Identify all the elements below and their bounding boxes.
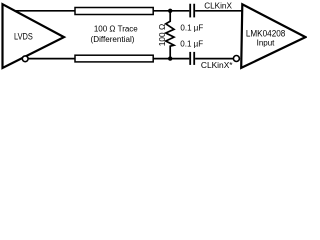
- svg-text:100 Ω Trace: 100 Ω Trace: [94, 25, 138, 34]
- wire bottom rail from trace to capacitor: [153, 58, 189, 60]
- wire bottom rail from capacitor to receiver bubble: [195, 58, 234, 60]
- svg-text:100 Ω: 100 Ω: [157, 24, 167, 46]
- node junction top: [168, 9, 172, 13]
- inversion bubble on receiver bottom input: [233, 56, 239, 62]
- node junction bottom: [168, 56, 172, 60]
- op-amp U2 LMK04208 input triangle: [241, 4, 305, 68]
- transmission line trace bottom (100 ohm): [75, 55, 153, 62]
- resistor R1 100 ohm vertical zigzag: [166, 11, 174, 59]
- op-amp U1 LVDS driver triangle: [3, 4, 65, 68]
- wire top rail from driver to trace: [15, 10, 76, 12]
- svg-text:LVDS: LVDS: [14, 32, 33, 42]
- svg-text:0.1 µF: 0.1 µF: [180, 40, 203, 49]
- wire bottom rail from driver bubble to trace: [28, 58, 75, 60]
- svg-text:Input: Input: [257, 38, 275, 48]
- svg-text:CLKinX*: CLKinX*: [201, 60, 233, 70]
- wire top rail from trace to capacitor: [153, 10, 189, 12]
- svg-text:0.1 µF: 0.1 µF: [180, 24, 203, 33]
- svg-text:CLKinX: CLKinX: [204, 2, 232, 11]
- transmission line trace top (100 ohm): [75, 8, 153, 15]
- capacitor C1 0.1uF top plates: [189, 4, 191, 18]
- inversion bubble on LVDS bottom output: [22, 56, 28, 62]
- capacitor C2 0.1uF bottom plates: [189, 52, 191, 65]
- svg-text:(Differential): (Differential): [91, 35, 135, 44]
- wire top rail from capacitor to receiver: [195, 10, 242, 12]
